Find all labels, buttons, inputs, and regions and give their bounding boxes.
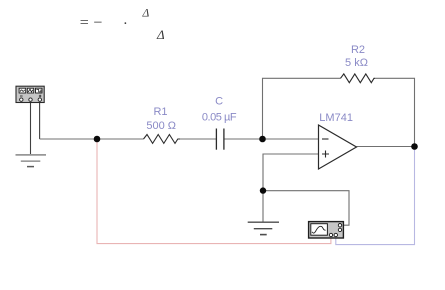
- ground left bar1: [16, 154, 47, 156]
- capacitor C1 right plate: [223, 129, 225, 150]
- wire op-amp non-inverting input to node C: [263, 154, 319, 191]
- oscilloscope screen sine trace: [312, 226, 326, 233]
- svg-text:C: C: [215, 96, 223, 108]
- function generator square icon: [36, 90, 41, 92]
- function generator sine icon: [20, 90, 24, 92]
- function generator terminal COM: [29, 98, 32, 101]
- wire fgen to node A: [40, 138, 97, 140]
- function generator square button: [36, 88, 43, 93]
- op-amp U1 triangle: [319, 125, 357, 169]
- svg-text:=: =: [80, 14, 89, 31]
- ground middle bar3: [260, 234, 267, 236]
- junction node A: [94, 136, 101, 143]
- svg-text:Δ: Δ: [142, 8, 150, 20]
- blue probe wire oscilloscope channel to output node: [336, 150, 415, 245]
- junction node B: [259, 136, 266, 143]
- function generator triangle button: [27, 88, 33, 93]
- svg-text:0.05 µF: 0.05 µF: [202, 111, 237, 123]
- wire op-amp output to output node: [357, 146, 415, 148]
- wire fgen COM terminal to ground: [30, 103, 32, 155]
- oscilloscope terminal bottom B: [334, 233, 337, 236]
- wire fgen + terminal down to main line: [39, 103, 41, 140]
- junction node C: [260, 187, 266, 193]
- svg-text:Δ: Δ: [156, 27, 165, 42]
- wire C to node B: [224, 138, 262, 140]
- ground left bar3: [27, 166, 34, 168]
- oscilloscope terminal bottom A: [329, 233, 332, 236]
- oscilloscope XSC1 body: [309, 222, 344, 238]
- oscilloscope terminal right bottom: [338, 228, 341, 231]
- svg-text:R1: R1: [153, 106, 167, 118]
- wire feedback left riser node B up to R2: [263, 78, 341, 139]
- wire node A to R1: [97, 138, 144, 140]
- wire node C to middle ground: [262, 191, 264, 222]
- svg-text:LM741: LM741: [319, 112, 353, 124]
- op-amp inverting pin minus sign: [322, 138, 329, 140]
- function generator sine button: [19, 88, 26, 93]
- ground middle bar2: [254, 228, 272, 230]
- wire node B to op-amp inverting input: [263, 138, 319, 140]
- oscilloscope terminal right top: [338, 224, 341, 227]
- function generator minus mark: [20, 95, 23, 97]
- wire feedback right R2 down to output node: [375, 78, 415, 146]
- svg-text:5 kΩ: 5 kΩ: [345, 57, 368, 69]
- function generator terminal plus: [38, 98, 41, 101]
- function generator XFG1 body: [16, 86, 44, 102]
- function generator plus mark: [39, 95, 41, 97]
- ground middle bar1: [248, 221, 279, 223]
- resistor R2 zigzag: [341, 74, 376, 83]
- capacitor C1 left plate: [215, 129, 217, 150]
- function generator triangle icon: [28, 89, 33, 92]
- svg-text:500 Ω: 500 Ω: [146, 120, 176, 132]
- red probe wire node A to oscilloscope channel: [97, 142, 331, 244]
- svg-text:·: ·: [123, 16, 128, 32]
- resistor R1 zigzag: [144, 135, 181, 144]
- junction output node: [411, 143, 418, 150]
- oscilloscope screen: [311, 224, 328, 236]
- ground left bar2: [21, 160, 41, 162]
- svg-text:−: −: [93, 14, 102, 31]
- wire R1 to C: [180, 138, 216, 140]
- op-amp non-inverting pin plus sign: [322, 151, 329, 158]
- svg-text:R2: R2: [351, 44, 365, 56]
- wire node C to oscilloscope terminal: [263, 191, 349, 226]
- function generator terminal minus: [20, 98, 23, 101]
